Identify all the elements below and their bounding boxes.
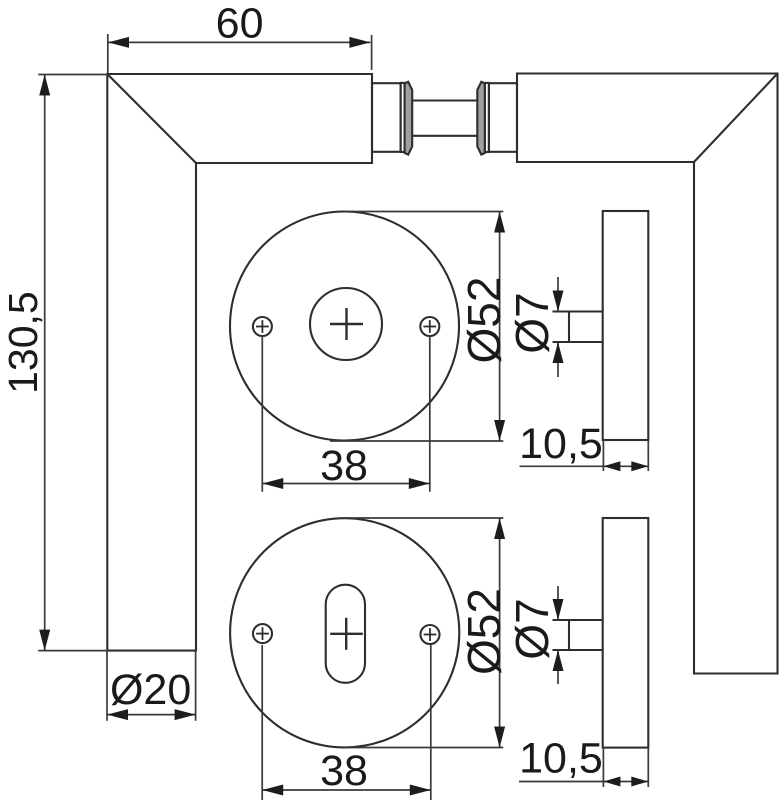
svg-text:Ø52: Ø52 <box>458 588 510 675</box>
svg-text:Ø20: Ø20 <box>110 666 191 714</box>
top rosette centre cross <box>330 308 363 340</box>
svg-text:10,5: 10,5 <box>519 420 603 468</box>
svg-text:Ø7: Ø7 <box>506 598 558 659</box>
left handle collar <box>405 82 413 155</box>
left handle mitre diagonal <box>107 74 196 163</box>
right handle mitre diagonal <box>694 74 778 163</box>
right handle neck <box>489 83 517 152</box>
svg-text:38: 38 <box>320 747 368 795</box>
dim 10,5 row1 line <box>520 465 649 467</box>
dim O52 row2 line <box>499 518 501 748</box>
right handle collar <box>477 82 485 155</box>
dimension texts <box>0 0 603 795</box>
dim O7 row1 arrows <box>553 291 564 312</box>
dim 10,5 row1 arrows <box>603 461 620 471</box>
bottom rosette left screw <box>253 624 272 643</box>
top rosette inner hole <box>310 288 382 360</box>
dim O7 row2 arrows <box>553 599 564 620</box>
top rosette right screw <box>420 317 439 336</box>
left handle ring <box>401 83 405 152</box>
svg-text:38: 38 <box>320 442 368 490</box>
dim 10,5 row2 extension lines <box>602 748 604 787</box>
dim 10,5 row2 arrows <box>603 777 620 787</box>
dim 38 row2 arrows <box>262 785 283 796</box>
dim 38 row1 extension lines <box>261 337 263 492</box>
dimension graphics <box>38 34 648 800</box>
dim O52 row2 arrows <box>494 518 505 539</box>
dim 10,5 row1 extension lines <box>602 440 604 471</box>
dim 10,5 row2 line <box>519 781 648 783</box>
dim 38 row2 line <box>262 789 431 791</box>
dim O52 row2 extension lines <box>344 517 503 519</box>
bottom rosette right screw <box>421 625 440 644</box>
dim O7 row1 arrow lines <box>557 277 559 312</box>
dim 60 extension lines <box>107 34 109 73</box>
dim O20 arrows <box>107 709 128 720</box>
dim O52 row1 line <box>499 212 501 442</box>
left handle neck <box>372 83 401 152</box>
right lever handle outline <box>517 74 778 674</box>
dim O20 extension lines <box>106 651 108 721</box>
top rosette outer circle <box>230 212 459 441</box>
dim O7 row2 arrow lines <box>557 586 559 620</box>
dim 130,5 extension lines <box>38 74 107 76</box>
svg-text:130,5: 130,5 <box>0 291 46 394</box>
dim 130,5 arrows <box>39 75 50 96</box>
side-view stub row 2 <box>553 620 603 650</box>
dim O52 row1 arrows <box>494 212 505 233</box>
bottom rosette key slot <box>326 585 365 683</box>
svg-text:Ø52: Ø52 <box>458 277 510 364</box>
svg-text:Ø7: Ø7 <box>506 292 558 353</box>
dim 38 row1 arrows <box>262 478 283 489</box>
bottom rosette outer circle <box>230 518 459 747</box>
dim 38 row2 extension lines <box>261 645 263 800</box>
dim 130,5 line <box>44 75 46 651</box>
side-view plate row 2 <box>603 518 649 748</box>
arrowheads <box>39 37 648 796</box>
spindle <box>412 99 477 101</box>
dim O20 line <box>107 714 196 716</box>
right handle ring <box>485 83 489 152</box>
svg-text:10,5: 10,5 <box>519 735 603 783</box>
svg-text:60: 60 <box>216 0 264 48</box>
dim 60 arrows <box>108 37 129 48</box>
dim 60 line <box>108 41 370 43</box>
left lever handle outline <box>107 74 372 651</box>
dim 38 row1 line <box>262 483 430 485</box>
top rosette left screw <box>253 317 272 336</box>
side-view plate row 1 <box>603 211 649 440</box>
dim O52 row1 extension lines <box>344 211 503 213</box>
side-view stub row 1 <box>553 312 603 343</box>
bottom rosette centre cross <box>330 618 363 650</box>
